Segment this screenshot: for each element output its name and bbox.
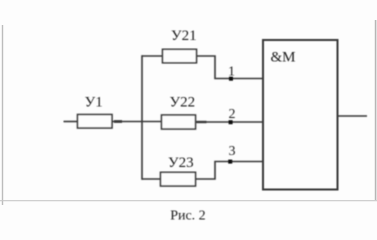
svg-text:У23: У23 [168,155,194,171]
svg-text:3: 3 [229,144,236,159]
wire: left input stub [64,121,78,123]
svg-text:2: 2 [229,107,236,122]
svg-text:&M: &M [271,50,296,66]
svg-text:У21: У21 [171,28,197,44]
scan frame bottom rule [0,200,377,202]
block U21 [163,49,197,63]
wire: U21 to AND input 1 [197,56,264,79]
node 1 junction dot [229,77,233,81]
block AND (&M) [263,40,338,190]
wire: bus to U23 [142,178,161,180]
node 2 junction dot [229,120,233,124]
svg-text:У1: У1 [85,94,103,110]
wire: bus to U21 [142,55,163,57]
wire: output [338,115,367,117]
wire: U22 to AND input 2 [196,121,264,123]
wire: vertical bus [141,55,143,180]
svg-text:Рис. 2: Рис. 2 [170,208,206,223]
block U23 [161,172,196,186]
block U22 [162,115,196,129]
scan frame right edge [375,20,377,200]
wire: U1 output arrow dash [114,120,122,123]
block U1 [78,115,113,129]
svg-text:У22: У22 [170,95,196,111]
wire: U23 to AND input 3 [196,162,264,180]
svg-text:1: 1 [228,65,235,80]
wire: U22 output thick dash [197,121,207,123]
node 3 junction dot [228,160,232,164]
scan frame left edge [2,25,4,205]
wire: middle row to U22 [112,121,162,123]
